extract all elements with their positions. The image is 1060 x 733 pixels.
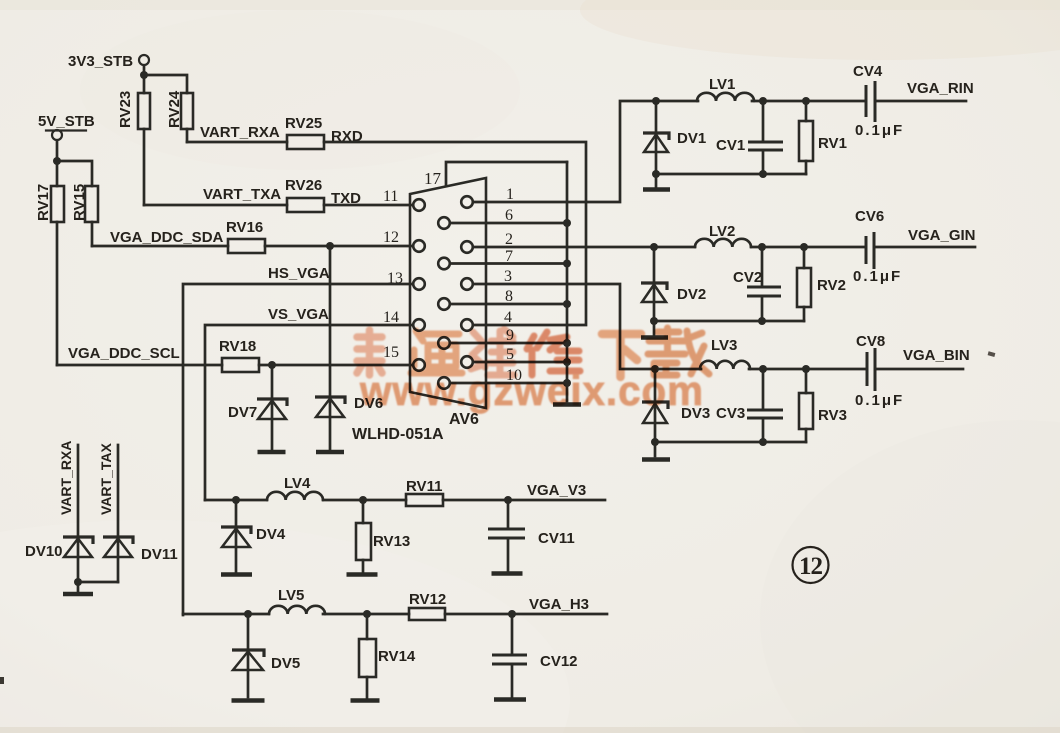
- watermark char jing: [357, 330, 382, 375]
- scan artifact right of VGA_BIN: [988, 351, 996, 357]
- wire RXD to pin 4: [324, 142, 586, 325]
- svg-text:4: 4: [504, 309, 512, 326]
- diode DV4: [221, 500, 286, 572]
- wire VS_VGA: [205, 325, 412, 500]
- svg-text:DV5: DV5: [271, 655, 300, 672]
- junction DV10-DV11: [74, 578, 82, 586]
- svg-text:RV26: RV26: [285, 177, 322, 194]
- diode DV11: [103, 537, 178, 563]
- svg-text:LV1: LV1: [709, 76, 735, 93]
- ground DV2: [653, 321, 656, 335]
- svg-text:VS_VGA: VS_VGA: [268, 306, 329, 323]
- svg-text:RV18: RV18: [219, 338, 256, 355]
- wire VGA_RIN: [875, 100, 966, 103]
- svg-text:VART_RXA: VART_RXA: [200, 124, 280, 141]
- ground CV12: [494, 697, 526, 702]
- junction RV1 top: [802, 97, 810, 105]
- wire pin 2 to LV2 net: [474, 246, 655, 249]
- watermark char xiu: [527, 332, 580, 375]
- svg-text:VART_RXA: VART_RXA: [58, 441, 74, 515]
- svg-text:VGA_V3: VGA_V3: [527, 482, 586, 499]
- resistor RV2: [797, 247, 846, 321]
- svg-text:1: 1: [506, 186, 514, 203]
- wire pin 1 to LV1 net: [474, 101, 657, 202]
- svg-text:CV6: CV6: [855, 208, 884, 225]
- svg-text:DV1: DV1: [677, 130, 706, 147]
- junction RV3 top: [802, 365, 810, 373]
- svg-text:17: 17: [424, 169, 442, 188]
- wire channel1 bottom rail: [656, 173, 806, 176]
- svg-text:RV14: RV14: [378, 648, 416, 665]
- svg-text:15: 15: [383, 344, 399, 361]
- wire HS_VGA: [183, 284, 412, 615]
- connector pins 1-5 right column: [461, 196, 473, 368]
- inductor LV3: [700, 337, 750, 369]
- wire RV23 to VART_TXA net: [143, 129, 146, 205]
- svg-text:VGA_GIN: VGA_GIN: [908, 227, 976, 244]
- svg-text:CV1: CV1: [716, 137, 745, 154]
- svg-text:CV4: CV4: [853, 63, 883, 80]
- diode DV10: [25, 537, 93, 560]
- wire VGA_H3 net: [183, 613, 607, 616]
- junction CV12 top: [508, 610, 516, 618]
- diode DV3: [642, 369, 710, 442]
- wire pin 8 to ground rail: [451, 303, 568, 306]
- wire LV1 input: [656, 100, 698, 103]
- power terminal 5V_STB: [38, 113, 95, 140]
- svg-text:VGA_DDC_SCL: VGA_DDC_SCL: [68, 345, 180, 362]
- power terminal 3V3_STB: [68, 53, 149, 70]
- capacitor CV3: [716, 369, 783, 442]
- ground DV4: [221, 572, 252, 577]
- wire RV24 to VART_RXA net: [186, 129, 189, 142]
- svg-text:8: 8: [505, 288, 513, 305]
- svg-text:LV2: LV2: [709, 223, 735, 240]
- svg-text:0.1μF: 0.1μF: [853, 268, 902, 285]
- connector ground rail: [566, 162, 569, 401]
- wire 3V3_STB rail: [144, 66, 187, 94]
- junction SCL-DV7: [268, 361, 276, 369]
- wire VART_RXA: [187, 141, 287, 144]
- junction LV3 input / DV3: [651, 365, 659, 373]
- inductor LV2: [695, 223, 751, 247]
- ground RV13: [347, 572, 378, 577]
- junction LV3 out / CV3: [759, 365, 767, 373]
- ground DV6: [316, 450, 344, 455]
- svg-text:RV11: RV11: [406, 478, 442, 495]
- svg-text:12: 12: [383, 229, 399, 246]
- wire VART_TAX to DV11: [117, 445, 120, 582]
- resistor RV11: [406, 478, 443, 506]
- svg-text:RV1: RV1: [818, 135, 847, 152]
- wire SDA to DV6: [329, 246, 332, 449]
- svg-text:DV2: DV2: [677, 286, 706, 303]
- svg-text:14: 14: [383, 309, 399, 326]
- ground DV1: [655, 174, 658, 187]
- ground RV14: [351, 698, 380, 703]
- wire pin 6 to ground rail: [451, 222, 568, 225]
- svg-text:DV7: DV7: [228, 404, 257, 421]
- diode DV1: [643, 101, 706, 174]
- svg-text:3: 3: [504, 268, 512, 285]
- svg-text:CV12: CV12: [540, 653, 578, 670]
- svg-text:VART_TXA: VART_TXA: [203, 186, 281, 203]
- junction 5V_STB: [53, 157, 61, 165]
- wire pin 5 to ground rail: [474, 361, 568, 364]
- svg-text:CV3: CV3: [716, 405, 745, 422]
- svg-text:LV5: LV5: [278, 587, 304, 604]
- svg-text:RV13: RV13: [373, 533, 410, 550]
- capacitor CV2: [733, 247, 781, 321]
- capacitor CV4: [853, 63, 883, 122]
- capacitor CV12: [492, 614, 578, 697]
- svg-text:HS_VGA: HS_VGA: [268, 265, 330, 282]
- svg-text:2: 2: [505, 231, 513, 248]
- wire 5V_STB rail: [57, 141, 92, 187]
- capacitor CV11: [488, 500, 575, 571]
- inductor LV4: [267, 475, 323, 500]
- svg-text:www.gzweix.com: www.gzweix.com: [359, 367, 704, 414]
- wire LV1 output to CV4: [752, 100, 866, 103]
- svg-text:RV3: RV3: [818, 407, 847, 424]
- ground connector shield: [553, 402, 581, 407]
- wire VGA_GIN: [874, 246, 975, 249]
- svg-text:VGA_H3: VGA_H3: [529, 596, 589, 613]
- junction DV4: [232, 496, 240, 504]
- capacitor CV6: [855, 208, 884, 269]
- junction SDA-DV6: [326, 242, 334, 250]
- resistor RV16: [226, 219, 265, 253]
- wire TXD to pin 11: [324, 204, 412, 207]
- diode DV7: [228, 399, 287, 421]
- wire channel3 bottom rail: [655, 441, 806, 444]
- svg-text:5V_STB: 5V_STB: [38, 113, 95, 130]
- svg-text:RV23: RV23: [117, 91, 134, 128]
- wire pin 7 to ground rail: [451, 262, 568, 265]
- resistor RV17: [35, 184, 64, 222]
- svg-text:WLHD-051A: WLHD-051A: [352, 426, 444, 443]
- ground CV11: [492, 571, 523, 576]
- resistor RV23: [117, 91, 150, 129]
- svg-text:VART_TAX: VART_TAX: [98, 443, 114, 515]
- wire VGA_V3 net: [205, 499, 605, 502]
- capacitor CV1: [716, 101, 783, 174]
- svg-text:DV10: DV10: [25, 543, 63, 560]
- diode DV6: [315, 395, 383, 417]
- wire VGA_DDC_SDA: [92, 245, 412, 248]
- wire LV2 input: [654, 246, 695, 249]
- diode DV5: [232, 614, 300, 697]
- watermark char wei: [471, 329, 514, 375]
- wire LV3 output to CV8: [749, 368, 867, 371]
- svg-text:CV8: CV8: [856, 333, 885, 350]
- resistor RV14: [359, 614, 416, 698]
- wire LV3 input: [655, 368, 701, 371]
- ground DV10 DV11: [63, 592, 93, 597]
- wire VART_TXA: [144, 204, 287, 207]
- inductor LV1: [697, 76, 754, 101]
- wire DV11 to DV10 junction: [78, 581, 118, 584]
- resistor RV13: [356, 500, 410, 572]
- junction CV11 top: [504, 496, 512, 504]
- svg-text:VGA_BIN: VGA_BIN: [903, 347, 970, 364]
- connector AV6 body: [410, 178, 486, 408]
- underline 5V_STB: [46, 129, 86, 131]
- wire pin 3 to LV3 net: [474, 284, 656, 369]
- connector pins 6-10 middle column: [438, 217, 450, 389]
- capacitor CV8: [856, 333, 885, 391]
- svg-text:VGA_RIN: VGA_RIN: [907, 80, 974, 97]
- ground DV7: [258, 450, 286, 455]
- scan artifact left edge: [0, 677, 4, 684]
- wire channel2 bottom rail: [654, 320, 804, 323]
- inductor LV5: [269, 587, 325, 614]
- svg-text:RV16: RV16: [226, 219, 263, 236]
- svg-text:RV17: RV17: [35, 184, 52, 221]
- junction RV13 top: [359, 496, 367, 504]
- wire SCL to DV7: [271, 365, 274, 449]
- svg-text:6: 6: [505, 207, 513, 224]
- svg-text:DV4: DV4: [256, 526, 286, 543]
- svg-text:RV12: RV12: [409, 591, 446, 608]
- ground DV5: [232, 698, 265, 703]
- svg-text:RV15: RV15: [71, 184, 88, 221]
- resistor RV18: [219, 338, 259, 372]
- svg-text:LV4: LV4: [284, 475, 311, 492]
- junction LV1 out / CV1: [759, 97, 767, 105]
- svg-text:LV3: LV3: [711, 337, 737, 354]
- svg-text:12: 12: [799, 553, 823, 580]
- svg-text:DV11: DV11: [141, 546, 178, 563]
- svg-text:VGA_DDC_SDA: VGA_DDC_SDA: [110, 229, 224, 246]
- watermark char tong: [411, 331, 462, 373]
- junction LV1 input / DV1: [652, 97, 660, 105]
- svg-text:0.1μF: 0.1μF: [855, 122, 904, 139]
- wire pin 9 to ground rail: [451, 342, 568, 345]
- svg-text:RV25: RV25: [285, 115, 322, 132]
- wire VGA_DDC_SCL: [57, 364, 412, 367]
- watermark char zai: [648, 328, 709, 375]
- svg-text:11: 11: [383, 188, 398, 205]
- wire RV15 to VGA_DDC_SDA net: [91, 222, 94, 246]
- wire RV17 to VGA_DDC_SCL net: [56, 222, 59, 365]
- wire pin 17 shell to ground rail: [446, 162, 567, 186]
- resistor RV26: [285, 177, 324, 212]
- ground DV3: [654, 442, 657, 456]
- svg-text:RV2: RV2: [817, 277, 846, 294]
- diode DV2: [641, 247, 706, 321]
- junction DV5: [244, 610, 252, 618]
- resistor RV25: [285, 115, 324, 149]
- wire pin 10 to ground rail: [451, 382, 568, 385]
- resistor RV15: [71, 184, 98, 222]
- watermark char xia: [602, 334, 641, 377]
- junction 3V3_STB: [140, 71, 148, 79]
- connector pins 11-15 left column: [413, 199, 425, 371]
- wire VGA_BIN: [875, 368, 963, 371]
- svg-text:CV11: CV11: [538, 530, 575, 547]
- svg-text:CV2: CV2: [733, 269, 762, 286]
- svg-text:0.1μF: 0.1μF: [855, 392, 904, 409]
- wire VART_RXA to DV10: [77, 445, 80, 592]
- junction LV2 input / DV2: [650, 243, 658, 251]
- svg-text:3V3_STB: 3V3_STB: [68, 53, 133, 70]
- resistor RV1: [799, 101, 847, 174]
- junction LV2 out / CV2: [758, 243, 766, 251]
- resistor RV12: [409, 591, 446, 620]
- page marker circled 12: [793, 547, 829, 583]
- wire LV2 output to CV6: [751, 246, 866, 249]
- junction RV14 top: [363, 610, 371, 618]
- svg-text:RV24: RV24: [166, 90, 183, 128]
- resistor RV3: [799, 369, 847, 442]
- resistor RV24: [166, 90, 193, 129]
- junction RV2 top: [800, 243, 808, 251]
